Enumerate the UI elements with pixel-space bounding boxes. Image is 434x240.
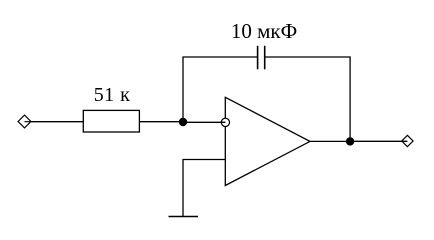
resistor R1 51k box xyxy=(83,110,139,132)
wire non-inverting input xyxy=(183,159,225,161)
svg-text:51 к: 51 к xyxy=(94,84,131,106)
node A junction dot xyxy=(179,118,187,126)
output node junction dot xyxy=(346,137,354,145)
wire input terminal to resistor xyxy=(25,121,84,123)
ground bar xyxy=(169,216,199,218)
wire op-amp output to node xyxy=(310,140,350,142)
wire node to inverting input xyxy=(183,121,225,123)
wire input stub inside diamond xyxy=(25,121,31,123)
inverting input circle xyxy=(221,118,229,126)
input terminal diamond xyxy=(18,115,31,128)
wire feedback top left to capacitor xyxy=(182,56,257,58)
capacitor C1 plates xyxy=(257,46,259,70)
op-amp U1 triangle xyxy=(225,97,310,185)
wire feedback right down to output node xyxy=(349,56,351,141)
wire output node to terminal xyxy=(350,140,407,142)
wire node to feedback top xyxy=(182,57,184,122)
output terminal diamond xyxy=(402,135,413,146)
wire resistor to node xyxy=(139,121,183,123)
wire to ground xyxy=(182,159,184,217)
svg-text:10 мкФ: 10 мкФ xyxy=(231,19,297,43)
wire capacitor to feedback right xyxy=(265,56,350,58)
